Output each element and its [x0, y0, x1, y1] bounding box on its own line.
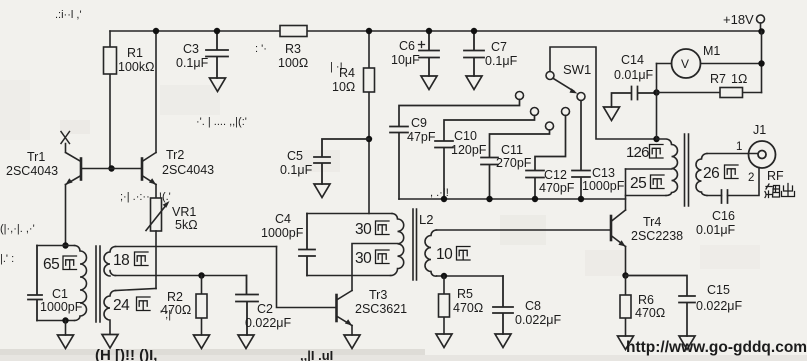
svg-text:47pF: 47pF	[407, 130, 436, 144]
svg-text:·'. | .... ,,|(:': ·'. | .... ,,|(:'	[196, 116, 247, 128]
wire L2 sec bottom	[437, 275, 504, 277]
svg-text:C5: C5	[287, 149, 303, 163]
svg-text:2SC4043: 2SC4043	[162, 163, 214, 177]
wire SW1 pivot to RF node	[550, 47, 657, 139]
svg-text:30: 30	[355, 250, 372, 267]
svg-text:,,|I .uI: ,,|I .uI	[300, 348, 333, 361]
wire meter branch vertical	[656, 64, 658, 140]
svg-text:1000pF: 1000pF	[582, 179, 625, 193]
svg-text:RF: RF	[767, 169, 784, 183]
svg-text:C10: C10	[454, 129, 477, 143]
core T1	[96, 246, 100, 322]
svg-text:0.01μF: 0.01μF	[696, 223, 736, 237]
svg-text:C14: C14	[621, 53, 644, 67]
label za 10	[457, 247, 471, 261]
ground C7	[466, 76, 482, 90]
svg-text:65: 65	[43, 256, 59, 273]
label za 30 upper	[376, 221, 390, 235]
wire 24t top link	[116, 289, 157, 291]
svg-text:0.1μF: 0.1μF	[280, 163, 313, 177]
svg-text:.:i··l ,': .:i··l ,'	[55, 9, 82, 21]
svg-text:470Ω: 470Ω	[453, 301, 483, 315]
wire T2 sec bottom	[707, 168, 759, 196]
svg-text:C12: C12	[544, 168, 567, 182]
node RF feed	[653, 89, 659, 95]
svg-text:5kΩ: 5kΩ	[175, 218, 198, 232]
ground R5	[436, 334, 452, 348]
core T2	[685, 134, 689, 206]
svg-text:2SC2238: 2SC2238	[631, 229, 683, 243]
svg-text:R3: R3	[285, 42, 301, 56]
svg-text:R2: R2	[167, 290, 183, 304]
node wiper contact	[577, 93, 585, 101]
svg-text:(H [)!! ()I,: (H [)!! ()I,	[95, 347, 157, 361]
svg-text:R5: R5	[457, 287, 473, 301]
crystal mark X	[61, 132, 70, 144]
wire Tr2 collector to rail	[155, 31, 157, 153]
ground R6	[618, 336, 634, 350]
ground Tr3	[344, 335, 360, 349]
svg-text:Tr2: Tr2	[166, 148, 184, 162]
ground 24t	[102, 335, 118, 349]
svg-text:R1: R1	[127, 46, 143, 60]
wire Tr3 collector to L2 tap	[352, 244, 398, 291]
node base junction	[108, 165, 114, 171]
wire base Tr1-Tr2	[81, 168, 142, 170]
svg-text:V: V	[681, 57, 689, 71]
svg-text:10Ω: 10Ω	[332, 80, 355, 94]
svg-text:0.01μF: 0.01μF	[614, 68, 654, 82]
capacitor C11	[481, 130, 550, 199]
capacitor C2	[236, 276, 258, 336]
node contact 3	[546, 122, 554, 130]
svg-text:1Ω: 1Ω	[731, 72, 747, 86]
svg-text:C15: C15	[707, 283, 730, 297]
node contact 2	[531, 108, 539, 116]
svg-text:C13: C13	[592, 166, 615, 180]
svg-text:120pF: 120pF	[451, 143, 487, 157]
inductor T1 secondary 18 turns	[104, 247, 116, 277]
ground C6	[421, 76, 437, 90]
svg-text:10μF: 10μF	[391, 53, 420, 67]
svg-text:C8: C8	[525, 299, 541, 313]
svg-text:C4: C4	[275, 212, 291, 226]
svg-text:2SC4043: 2SC4043	[6, 164, 58, 178]
svg-text:C1: C1	[52, 287, 68, 301]
wire T2 primary bottom	[626, 195, 667, 197]
capacitor C13	[572, 101, 590, 200]
svg-text:C16: C16	[712, 209, 735, 223]
ground R2	[194, 335, 210, 349]
node Tr1 emitter to tank	[62, 242, 68, 248]
svg-text:26: 26	[703, 165, 719, 182]
switch SW1	[546, 72, 554, 80]
svg-text:0.1μF: 0.1μF	[485, 54, 518, 68]
svg-text:R4: R4	[339, 66, 355, 80]
capacitor C9	[390, 100, 520, 200]
wire tank top	[37, 245, 75, 247]
svg-text:470Ω: 470Ω	[161, 303, 191, 317]
ground C2	[238, 335, 254, 349]
label za 18	[135, 252, 149, 266]
wire T2 sec top to J1	[707, 153, 758, 155]
inductor L2 secondary 10 turns	[425, 230, 437, 276]
label za 26	[725, 165, 739, 179]
wire L2 primary top	[307, 213, 392, 215]
svg-text:30: 30	[355, 221, 372, 238]
resistor R3	[280, 26, 307, 37]
svg-text:C3: C3	[183, 42, 199, 56]
svg-text:100Ω: 100Ω	[278, 56, 308, 70]
capacitor C16	[722, 190, 728, 203]
label za 30 lower	[376, 250, 390, 264]
resistor R5	[443, 276, 445, 334]
resistor R2	[201, 276, 203, 336]
svg-text:25: 25	[630, 175, 646, 192]
resistor R7	[657, 92, 762, 94]
inductor T2 primary 126+25 turns	[657, 139, 678, 196]
svg-text:Tr1: Tr1	[27, 150, 45, 164]
svg-text:C7: C7	[491, 40, 507, 54]
label za 25	[651, 175, 665, 189]
inductor T1 secondary 24 turns	[104, 291, 116, 335]
resistor R1	[109, 31, 111, 169]
transistor Tr3	[335, 295, 338, 321]
capacitor C5	[314, 139, 369, 184]
resistor R6	[625, 276, 627, 337]
label shuchu output	[765, 184, 795, 198]
svg-text:1: 1	[736, 141, 742, 153]
wire node to Tr3 base	[277, 247, 337, 308]
svg-text:0.022μF: 0.022μF	[245, 316, 291, 330]
capacitor C10	[435, 116, 535, 200]
svg-text:|.' :: |.' :	[0, 253, 14, 265]
wire node A horizontal	[116, 246, 277, 248]
svg-text:470pF: 470pF	[539, 181, 575, 195]
capacitor C4	[299, 214, 315, 276]
wire VR1 down through node	[155, 231, 157, 289]
svg-text:0.1μF: 0.1μF	[176, 56, 209, 70]
capacitor C1	[28, 246, 42, 321]
node contact 4	[562, 108, 570, 116]
svg-text:470Ω: 470Ω	[635, 306, 665, 320]
inductor T1 primary 65 turns	[75, 246, 87, 321]
svg-text:Tr3: Tr3	[369, 288, 387, 302]
ground C8	[495, 334, 511, 348]
svg-text:R7: R7	[710, 72, 726, 86]
svg-text:1000pF: 1000pF	[261, 226, 304, 240]
transistor Tr1	[80, 159, 83, 180]
ground tank	[58, 335, 74, 349]
svg-text:L2: L2	[419, 212, 433, 227]
svg-text:C9: C9	[411, 116, 427, 130]
wire Tr2 emitter	[155, 185, 157, 199]
svg-text:http://www.go-gddq.com: http://www.go-gddq.com	[626, 339, 807, 356]
svg-text:;·| .·:··, ,!(.': ;·| .·:··, ,!(.'	[120, 191, 171, 203]
wire right supply drop	[761, 32, 763, 93]
capacitor C8	[493, 276, 513, 334]
capacitor C7	[464, 31, 484, 76]
capacitor C6	[419, 31, 439, 76]
potentiometer VR1	[151, 198, 162, 231]
svg-text:C6: C6	[399, 39, 415, 53]
svg-text:18: 18	[113, 252, 129, 269]
capacitor C15	[626, 276, 696, 337]
wire tank bottom	[37, 320, 75, 322]
svg-text:Tr4: Tr4	[643, 215, 661, 229]
inductor L2 primary 30+30 turns	[391, 214, 404, 276]
label za 24	[137, 297, 151, 311]
wire Tr1 emitter down	[65, 185, 67, 246]
inductor T2 secondary 26 turns	[696, 154, 707, 196]
label za 126	[650, 145, 664, 159]
ground C14	[604, 107, 620, 121]
wire 18t bottom to C2	[116, 275, 247, 277]
svg-text:C11: C11	[501, 143, 523, 157]
resistor R4	[368, 31, 370, 214]
wire Tr4 emitter down	[625, 247, 627, 276]
svg-text:10: 10	[436, 246, 453, 263]
svg-text:1000pF: 1000pF	[40, 300, 83, 314]
core L2	[413, 209, 417, 280]
svg-text:24: 24	[113, 297, 130, 314]
wire top supply rail	[110, 30, 762, 32]
wire L2 sec top to Tr4 base	[437, 229, 612, 231]
svg-text:100kΩ: 100kΩ	[118, 60, 154, 74]
svg-text:270pF: 270pF	[496, 156, 532, 170]
label za 65	[63, 256, 77, 270]
svg-text:(|·,·|. ,·': (|·,·|. ,·'	[0, 223, 35, 235]
svg-text:VR1: VR1	[172, 205, 196, 219]
transistor Tr2	[141, 159, 144, 180]
svg-text:C2: C2	[257, 302, 273, 316]
meter M1	[672, 49, 701, 78]
ground C3	[210, 78, 226, 92]
svg-text:0.022μF: 0.022μF	[515, 313, 561, 327]
svg-text:M1: M1	[703, 44, 720, 58]
svg-text:0.022μF: 0.022μF	[696, 299, 742, 313]
svg-text:R6: R6	[638, 293, 654, 307]
ground C5	[314, 184, 330, 198]
wire cap common rail	[399, 198, 626, 200]
svg-text:SW1: SW1	[563, 62, 591, 77]
node contact 1	[516, 92, 524, 100]
svg-text:126: 126	[626, 144, 649, 161]
wire L2 primary bottom	[307, 275, 391, 277]
svg-text:J1: J1	[753, 123, 766, 137]
wire Tr4 collector to tap	[625, 169, 627, 210]
svg-text:2SC3621: 2SC3621	[355, 302, 407, 316]
capacitor C12	[526, 116, 566, 200]
capacitor C3	[206, 31, 228, 78]
ground C15	[679, 336, 695, 350]
svg-text:2: 2	[748, 172, 754, 184]
svg-text:+18V: +18V	[723, 12, 754, 27]
transistor Tr4	[610, 216, 613, 240]
svg-text:: '·: : '·	[255, 43, 267, 55]
wire T2 tap	[626, 168, 672, 170]
connector J1	[749, 141, 776, 168]
capacitor C14	[612, 87, 657, 108]
terminal +18V	[757, 15, 765, 23]
